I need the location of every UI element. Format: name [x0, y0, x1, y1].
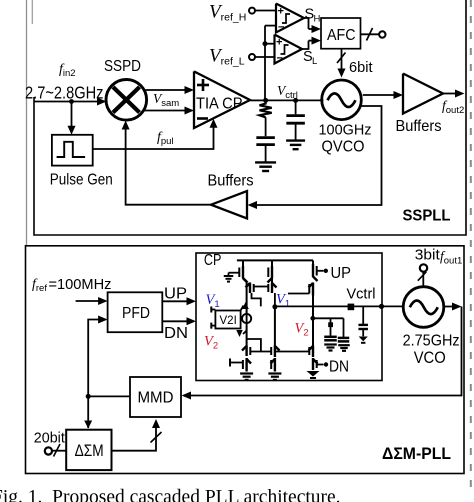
DSM-PLL block outline [26, 246, 465, 474]
wire CP supply rail [237, 259, 313, 261]
capacitor C2 [286, 114, 305, 117]
transistor M2 [271, 260, 273, 266]
wire R to C1 [265, 117, 267, 136]
stub V2 input gate [210, 323, 212, 329]
wire NMOS cascode gate bus [250, 351, 271, 353]
wire V1 node to current source [246, 303, 248, 315]
ground capB [338, 344, 350, 346]
svg-text:AFC: AFC [327, 27, 356, 44]
wire V2 branch [313, 317, 344, 319]
svg-text:+: + [278, 6, 284, 18]
block CP outline [196, 253, 382, 381]
wire f_in2 to Pulse Gen [71, 102, 73, 129]
capacitor C1 [256, 136, 275, 139]
wire V_sam lower [145, 110, 187, 112]
pulse icon [57, 142, 86, 157]
svg-text:20bit: 20bit [34, 430, 65, 446]
wire f_pul to TIA CP [93, 127, 214, 150]
buffer feedback Buffers [211, 191, 247, 219]
wire rail to UP PMOS [312, 260, 314, 264]
scan artifact right gray rule [470, 0, 472, 495]
svg-text:DN: DN [164, 325, 188, 342]
wire DSM clock arrow [84, 421, 92, 429]
transistor UP cascode PMOS [312, 283, 314, 296]
node square junction Vctrl [348, 304, 355, 311]
svg-text:V2I: V2I [220, 315, 237, 327]
wire 20bit to DSM with slash [52, 450, 66, 452]
wire M2 to M4 [271, 279, 273, 284]
wire fout1 to VCO with slash [422, 272, 424, 287]
wire capC stem [362, 329, 364, 336]
wire VCO feedback to MMD [190, 307, 462, 396]
wire cascode gate lead [288, 293, 309, 295]
svg-text:2.7~2.8GHz: 2.7~2.8GHz [25, 82, 104, 102]
op-amp TIA CP [194, 71, 250, 128]
ground C2 [286, 139, 305, 141]
wire UP to CP [162, 300, 188, 302]
wire to S_L non-inverting input [265, 43, 275, 45]
transistor N2b [274, 358, 276, 372]
terminal V_ref_L [249, 54, 255, 60]
current source V2I [242, 314, 251, 323]
svg-text:ΔΣM: ΔΣM [75, 442, 104, 460]
wire M3 M4 gate bus [254, 286, 269, 288]
wire M4 drain to V1 node [274, 293, 276, 307]
wire UP column to rail [312, 296, 314, 307]
svg-text:=100MHz: =100MHz [49, 276, 112, 293]
ground capC [359, 337, 368, 342]
wire M3 drain jog [252, 293, 261, 306]
svg-text:UP: UP [164, 285, 187, 302]
wire QVCO to Buffers [363, 94, 396, 96]
transistor N2a [274, 346, 276, 358]
node TIA output junction [250, 99, 265, 101]
wire CP output rail Vctrl [275, 305, 403, 307]
SSPLL block outline [34, 0, 466, 235]
wire V_sam upper [143, 89, 187, 91]
stub V1 input gate [210, 307, 212, 313]
oscillator 2.75GHz VCO [403, 287, 444, 328]
ground DN [307, 371, 320, 377]
ground capA [324, 343, 337, 345]
transistor DN cascode [312, 346, 314, 358]
svg-text:6bit: 6bit [349, 60, 373, 76]
wire S_L output to AFC [302, 41, 309, 49]
svg-text:UP: UP [331, 265, 352, 282]
svg-text:100GHz: 100GHz [319, 122, 372, 139]
node Vctrl junction C2 [293, 98, 298, 103]
ground N2b [268, 372, 281, 374]
wire DN column upper [312, 306, 314, 345]
wire Vctrl to QVCO [265, 99, 324, 101]
transistor M1 [242, 260, 244, 266]
wire M1 gate [229, 272, 240, 274]
wire column B down [274, 307, 276, 346]
wire to S_H inverting input [265, 25, 276, 27]
wire V2I upper arrow [241, 306, 244, 311]
svg-text:PFD: PFD [122, 305, 150, 322]
buffer amplifier Buffers out2 [403, 74, 443, 114]
wire DSM to MMD [112, 428, 157, 451]
wire M1 column to V1 node [243, 279, 247, 283]
ground N1b [240, 372, 253, 374]
mixer SSPD [106, 80, 147, 121]
terminal 3bit fout1 [420, 264, 427, 271]
wire S_H output to AFC [304, 18, 309, 29]
svg-text:MMD: MMD [138, 389, 174, 406]
wire VCO output arrow [444, 306, 454, 308]
wire Vctrl sense riser [264, 26, 266, 101]
wire MMD output [88, 395, 130, 397]
svg-text:VCO: VCO [414, 349, 446, 367]
block DSM [66, 430, 111, 470]
node junction at CP edge [379, 304, 384, 309]
wire V_ref_L to comparator S_L [255, 56, 275, 58]
wire UP gate with dot [317, 270, 324, 272]
svg-text:Buffers: Buffers [208, 173, 254, 190]
oscillator 100GHz QVCO [322, 80, 362, 120]
node V2 branch junction [310, 316, 315, 321]
svg-text:TIA CP: TIA CP [196, 96, 243, 113]
svg-text:3bit: 3bit [415, 246, 441, 263]
wire cascode gate to DN column [275, 351, 309, 353]
wire capA riser [330, 318, 332, 336]
wire DN to CP [162, 320, 188, 322]
wire C2 to ground [295, 123, 297, 140]
wire gate jog rectangle [247, 339, 261, 352]
comparator S_L [275, 35, 303, 64]
wire to C2 [295, 100, 297, 114]
block AFC [321, 18, 361, 49]
node V1 junction [272, 304, 277, 309]
node junction f_in2 [69, 99, 74, 104]
capacitor capB [338, 337, 350, 340]
svg-text:+: + [276, 37, 282, 49]
block Pulse Gen [52, 135, 93, 166]
resistor R loop filter [260, 100, 272, 117]
wire capB riser [343, 318, 345, 337]
ground M1 gate [224, 275, 234, 277]
wire QVCO feedback tap [255, 106, 382, 205]
wire C1 to ground [265, 145, 267, 162]
svg-text:QVCO: QVCO [322, 138, 365, 155]
transistor N1b [245, 358, 247, 372]
capacitor capC [358, 324, 368, 326]
svg-text:2.75GHz: 2.75GHz [403, 333, 460, 350]
scan artifact left gray rule [26, 0, 28, 245]
svg-text:SSPLL: SSPLL [403, 208, 451, 225]
svg-text:SSPD: SSPD [104, 58, 141, 75]
comparator S_H [276, 4, 304, 33]
stub bottom bias [229, 359, 231, 367]
transistor N1a [245, 346, 247, 357]
wire V_ref_H to comparator S_H [255, 10, 276, 12]
block MMD [130, 377, 181, 417]
svg-text:Buffers: Buffers [396, 118, 442, 135]
wire feedback to mixer LO [126, 128, 211, 205]
wire AFC 6bit to QVCO [341, 49, 343, 71]
wire DN gate with dot [317, 364, 324, 366]
node feedback junction [86, 394, 91, 399]
wire current source down [246, 326, 248, 346]
wire f_ref to PFD [76, 300, 100, 302]
transistor DN NMOS [312, 358, 314, 370]
svg-text:DN: DN [329, 358, 349, 375]
svg-text:Vctrl: Vctrl [347, 285, 376, 302]
node junction on sense line [263, 41, 268, 46]
transistor M3 [249, 283, 251, 294]
wire V2I lower arrow [243, 331, 247, 335]
capacitor capA [324, 336, 337, 339]
wire MMD to PFD feedback [88, 320, 100, 429]
wire capC riser [362, 306, 364, 324]
transistor UP PMOS [312, 264, 314, 277]
svg-text:ΔΣM-PLL: ΔΣM-PLL [382, 445, 451, 463]
terminal 20bit input [45, 447, 52, 454]
svg-text:Pulse Gen: Pulse Gen [50, 172, 113, 189]
terminal V_ref_H [249, 8, 255, 14]
node capA square junction [328, 322, 333, 327]
svg-text:H: H [314, 14, 321, 25]
block PFD [108, 292, 163, 332]
block V2I [215, 311, 240, 329]
svg-text:L: L [312, 56, 317, 67]
wire AFC output right with bus slash [361, 33, 379, 35]
svg-text:Fig. 1. Proposed cascaded PLL: Fig. 1. Proposed cascaded PLL architectu… [0, 487, 341, 502]
terminal AFC output [379, 31, 385, 37]
wire f_out2 output [443, 93, 457, 95]
ground C1 [255, 161, 276, 163]
transistor M4 [271, 283, 273, 294]
svg-text:CP: CP [204, 252, 222, 269]
wire f_in2 input [34, 101, 100, 103]
